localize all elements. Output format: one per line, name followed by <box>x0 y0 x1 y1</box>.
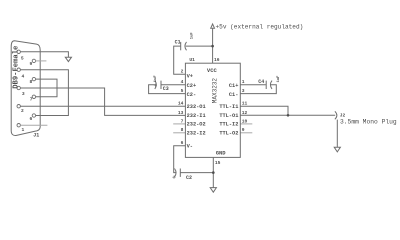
svg-text:8: 8 <box>181 127 184 133</box>
svg-text:13: 13 <box>178 110 184 116</box>
svg-text:2: 2 <box>21 108 24 114</box>
svg-text:8: 8 <box>30 79 33 85</box>
svg-text:C2: C2 <box>186 175 192 181</box>
svg-text:9: 9 <box>30 61 33 67</box>
svg-text:J1: J1 <box>33 132 39 138</box>
svg-text:TTL-O1: TTL-O1 <box>219 113 238 119</box>
svg-text:1uF: 1uF <box>277 75 281 83</box>
svg-text:C4: C4 <box>258 79 264 85</box>
svg-text:232-O2: 232-O2 <box>187 122 206 128</box>
svg-text:6: 6 <box>181 140 184 146</box>
svg-text:C1+: C1+ <box>229 83 239 89</box>
svg-text:5: 5 <box>181 88 184 94</box>
svg-text:14: 14 <box>178 101 184 107</box>
svg-text:C3: C3 <box>163 86 169 92</box>
svg-text:VCC: VCC <box>207 67 218 74</box>
svg-text:TTL-I1: TTL-I1 <box>219 104 238 110</box>
svg-text:1uF: 1uF <box>191 32 195 40</box>
svg-text:11: 11 <box>242 101 248 107</box>
svg-text:TTL-I2: TTL-I2 <box>219 122 238 128</box>
svg-text:V+: V+ <box>187 74 193 80</box>
svg-text:3.5mm Mono Plug: 3.5mm Mono Plug <box>340 118 397 125</box>
svg-text:V-: V- <box>187 143 193 149</box>
svg-text:C2+: C2+ <box>187 83 197 89</box>
svg-text:232-I1: 232-I1 <box>187 113 206 119</box>
svg-text:232-O1: 232-O1 <box>187 104 206 110</box>
svg-text:DB9-Female: DB9-Female <box>12 46 20 89</box>
svg-text:+5v (external regulated): +5v (external regulated) <box>216 24 304 31</box>
svg-text:1: 1 <box>242 79 245 85</box>
svg-text:7: 7 <box>181 118 184 124</box>
svg-text:3: 3 <box>22 91 25 97</box>
svg-text:C1-: C1- <box>229 92 239 98</box>
svg-text:12: 12 <box>242 110 248 116</box>
svg-text:4: 4 <box>181 79 184 85</box>
svg-text:9: 9 <box>242 127 245 133</box>
svg-text:7: 7 <box>30 96 33 102</box>
svg-text:16: 16 <box>214 57 220 63</box>
svg-text:GND: GND <box>216 150 227 157</box>
svg-text:10: 10 <box>242 118 248 124</box>
svg-text:TTL-O2: TTL-O2 <box>219 131 238 137</box>
svg-text:MAX3232: MAX3232 <box>211 78 218 104</box>
svg-text:C2-: C2- <box>187 92 197 98</box>
svg-text:5: 5 <box>21 56 24 62</box>
svg-text:4: 4 <box>22 73 25 79</box>
svg-text:1uF: 1uF <box>154 75 158 83</box>
svg-text:2: 2 <box>181 69 184 75</box>
svg-text:3: 3 <box>242 88 245 94</box>
svg-text:15: 15 <box>215 160 221 166</box>
svg-text:6: 6 <box>30 116 33 122</box>
svg-text:232-I2: 232-I2 <box>187 131 206 137</box>
svg-text:C1: C1 <box>175 39 181 45</box>
svg-text:U1: U1 <box>189 57 195 63</box>
svg-text:1: 1 <box>22 127 25 133</box>
